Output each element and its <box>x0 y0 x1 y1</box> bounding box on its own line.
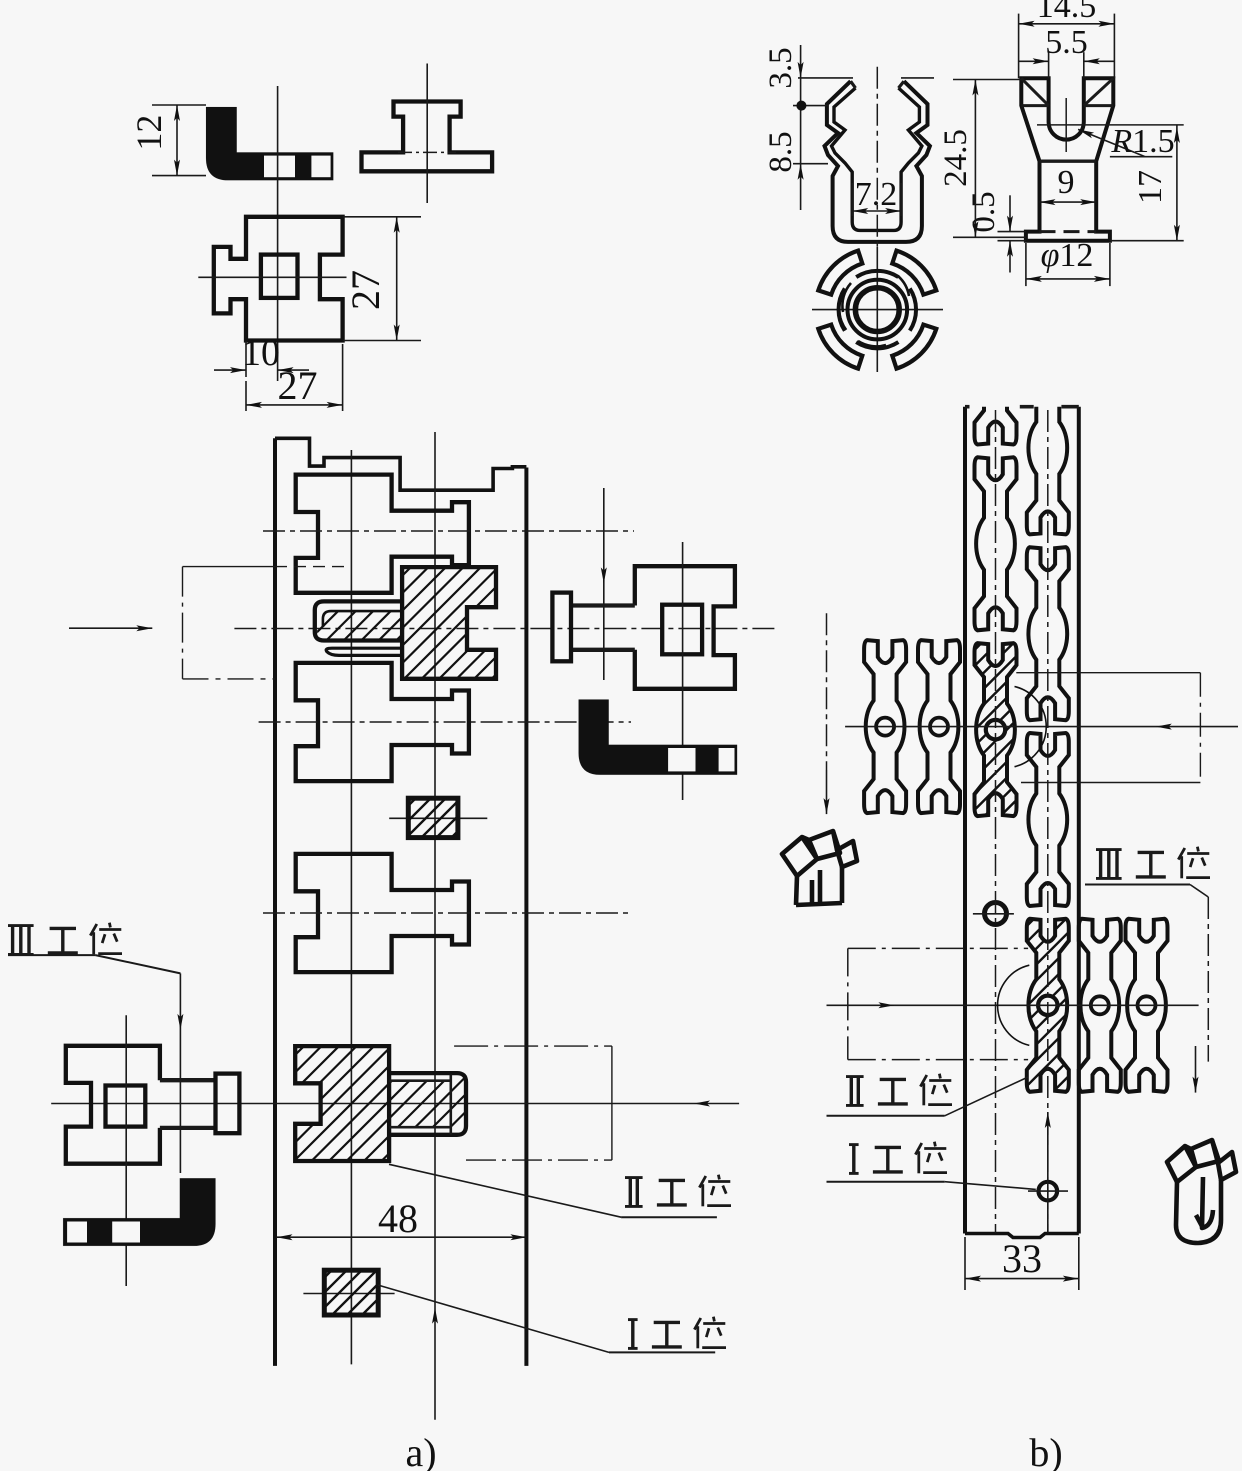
punched square station I (lower) <box>324 1270 378 1315</box>
U-channel inner contour <box>832 88 922 230</box>
blanked holes right column <box>1027 361 1069 534</box>
upper hatched punch: big block <box>402 567 496 679</box>
dim 24.5 <box>953 79 1021 81</box>
dim phi12 <box>1025 243 1027 286</box>
R1.5 leader <box>1078 129 1145 156</box>
svg-text:24.5: 24.5 <box>938 129 974 187</box>
row 2 centerline <box>827 1004 1199 1006</box>
strip b left edge <box>963 407 967 1234</box>
centerline of L-part / 27-part <box>277 86 279 381</box>
circle in left hatched part <box>986 720 1005 739</box>
exit path left (part drop) <box>826 613 828 770</box>
svg-text:12: 12 <box>129 115 169 151</box>
exit path right <box>1207 897 1209 1062</box>
part centerline <box>876 67 878 252</box>
centerline station 1 <box>263 530 634 532</box>
dim 3.5 / 8.5 stack <box>798 77 853 79</box>
die arc left of right station <box>998 965 1030 1045</box>
its neck lines <box>571 603 635 607</box>
phantom die box left (upper station) <box>183 566 276 568</box>
punch centerline x=435 <box>434 432 436 1420</box>
station outline at y=722.0 <box>296 663 469 781</box>
pilot circle right col <box>1039 1182 1058 1201</box>
funnel chamfer lines <box>1021 78 1048 105</box>
dim 0.5 <box>998 231 1026 233</box>
its T-tab <box>216 1074 240 1134</box>
U-channel formed part: outer contour <box>825 81 930 242</box>
lower hatched punch: right arm outer <box>389 1073 466 1135</box>
svg-text:b): b) <box>1029 1430 1062 1471</box>
strip a left edge <box>273 438 277 1366</box>
centerline square punch 2 <box>303 1293 394 1295</box>
bottom view circles <box>855 288 899 332</box>
row 1 centerline <box>845 726 1238 728</box>
dim 17 <box>1176 125 1178 241</box>
column centerline left <box>995 410 997 1233</box>
station outline at y=913.0 <box>296 854 469 972</box>
standalone cross part right of strip a (arm left) <box>635 566 735 689</box>
its center square hole <box>662 605 702 655</box>
svg-text:17: 17 <box>1132 170 1169 204</box>
svg-text:0.5: 0.5 <box>966 191 1002 232</box>
ejected parts row 2 (right of strip) <box>1079 919 1121 1092</box>
svg-text:a): a) <box>405 1430 436 1471</box>
ring with gaps r39 <box>856 342 898 348</box>
its vertical centerline <box>125 1015 127 1286</box>
27-part plan view <box>214 217 343 341</box>
svg-text:10: 10 <box>242 332 280 374</box>
punch centerline x=351 <box>350 450 352 1364</box>
column centerline right <box>1047 410 1049 1233</box>
svg-text:14.5: 14.5 <box>1037 0 1097 25</box>
horizontal centerline <box>198 276 346 278</box>
label III gongwei (left) <box>11 925 14 954</box>
strip b right edge <box>1077 407 1081 1234</box>
phantom box right of row1 <box>1016 672 1200 674</box>
svg-text:R1.5: R1.5 <box>1110 123 1174 160</box>
dim 33 <box>964 1237 966 1290</box>
feed arrow up in strip b <box>1047 1112 1049 1232</box>
feed arrow up, bottom of strip a <box>432 1308 438 1324</box>
petal wings <box>892 325 936 369</box>
its T-tab <box>552 593 571 662</box>
svg-text:27: 27 <box>278 363 318 408</box>
hatched part at station (left col) <box>975 643 1017 816</box>
hatched part at station (right col) <box>1027 919 1069 1092</box>
circle in right hatched part <box>1038 996 1057 1015</box>
strip a right edge <box>524 468 528 1366</box>
blanked hole outline, left col partial <box>975 272 1017 445</box>
upper hatched punch: left arm inner lip <box>323 611 402 627</box>
cap divider <box>449 1075 452 1135</box>
bottom view: crosshair <box>812 309 943 311</box>
dim 5.5 <box>1048 52 1050 78</box>
leader arrow down <box>179 973 181 1173</box>
dimension 27 horizontal <box>245 381 247 411</box>
svg-text:27: 27 <box>343 270 388 310</box>
dimension 12 <box>152 104 206 106</box>
slot centerlines <box>1065 98 1067 152</box>
its vertical centerline <box>682 542 684 800</box>
feed direction arrow <box>69 627 152 629</box>
label I gongwei (a) <box>631 1319 634 1348</box>
dim 9 <box>1040 201 1097 203</box>
its center square hole <box>106 1086 146 1127</box>
dimension 10 <box>245 341 247 378</box>
strip a sheared top edge <box>275 438 526 490</box>
centerline hatched station (upper) <box>234 628 777 630</box>
blanked hole outline, left col <box>975 457 1017 630</box>
I-beam centerline <box>426 64 428 204</box>
funnel part outline <box>1021 78 1113 240</box>
punched square station I (upper) <box>408 798 458 837</box>
ejected parts row 1 (left of strip) <box>864 640 906 813</box>
svg-text:9: 9 <box>1058 164 1075 201</box>
svg-text:7.2: 7.2 <box>855 176 898 213</box>
phantom die box right (lower station) <box>454 1045 612 1047</box>
dim 14.5 <box>1018 14 1020 79</box>
svg-text:8.5: 8.5 <box>763 131 799 172</box>
lower hatched punch: arm inner lips <box>389 1079 452 1082</box>
svg-text:33: 33 <box>1002 1236 1042 1281</box>
svg-text:48: 48 <box>378 1196 418 1241</box>
hidden line in base <box>1040 230 1097 233</box>
svg-text:φ12: φ12 <box>1041 237 1094 274</box>
center square hole <box>261 255 298 298</box>
formed L-part (top-left, black) <box>206 107 333 180</box>
centerline station 3 <box>263 912 631 914</box>
inner spring arcs <box>839 294 846 330</box>
pilot circle left col <box>985 903 1007 925</box>
centerline square punch 1 <box>389 817 487 819</box>
label II gongwei (b) <box>850 1076 853 1105</box>
centerline hatched station (lower) / part row <box>51 1103 739 1105</box>
svg-text:3.5: 3.5 <box>763 47 799 88</box>
upper hatched punch: left arm outer <box>315 601 402 640</box>
strip b top edge <box>965 405 970 409</box>
label I gongwei (b) <box>852 1144 855 1173</box>
I-beam section part (top) <box>362 102 493 172</box>
dimension 48 (strip width) <box>277 1236 527 1238</box>
formed crown part (right, isometric) <box>1167 1140 1236 1243</box>
upper hatched punch: lower lip <box>326 648 402 655</box>
formed L-part right of strip a (black) <box>579 700 738 775</box>
phantom box left of row2 (dash-dot) <box>848 947 1028 949</box>
label II gongwei (a) <box>629 1177 632 1206</box>
label III gongwei (b) <box>1099 849 1102 878</box>
strip b bottom edge <box>965 1234 1079 1238</box>
formed crown part (left, isometric) <box>782 831 857 905</box>
its neck lines <box>160 1078 216 1082</box>
dim 7.2 <box>851 183 853 216</box>
svg-text:5.5: 5.5 <box>1045 24 1088 61</box>
station outline at y=533.7 <box>296 475 469 593</box>
U-channel tip faces <box>851 81 856 88</box>
dimension 27 vertical <box>343 216 421 218</box>
die arc right of left station <box>1015 687 1047 767</box>
formed L-part bottom-left (black, mirrored) <box>63 1178 215 1246</box>
centerline station 2 <box>259 721 631 723</box>
standalone cross part bottom-left (arm right) <box>66 1046 160 1164</box>
punch arrow entering part <box>603 488 605 680</box>
